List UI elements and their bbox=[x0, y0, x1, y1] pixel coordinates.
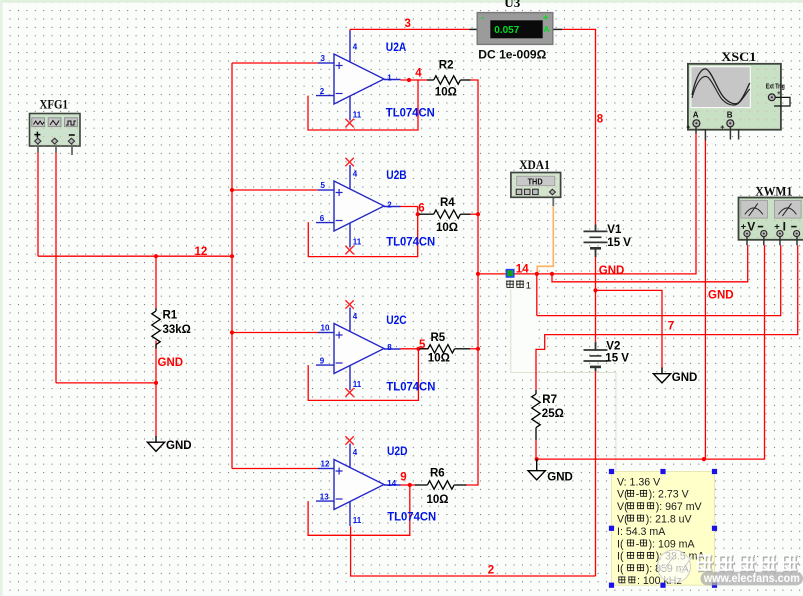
svg-text:+: + bbox=[686, 125, 690, 132]
wire R4 right lead red bbox=[471, 213, 479, 215]
svg-text:+: + bbox=[543, 13, 549, 24]
svg-text:25Ω: 25Ω bbox=[542, 408, 564, 420]
U2A pin labels bbox=[320, 43, 393, 120]
svg-text:): 2.73 V: ): 2.73 V bbox=[649, 489, 690, 501]
wire U2A feedback bbox=[308, 80, 418, 130]
U2B pin11 no-connect X bbox=[345, 246, 353, 254]
wire net 7 to XWM1 +I terminal bbox=[537, 245, 781, 315]
svg-text:6: 6 bbox=[418, 203, 424, 215]
svg-text:12: 12 bbox=[195, 246, 208, 258]
svg-text:TL074CN: TL074CN bbox=[386, 235, 435, 249]
svg-text:10: 10 bbox=[321, 324, 330, 333]
svg-text:14: 14 bbox=[387, 479, 396, 488]
wire U2B feedback bbox=[308, 207, 417, 257]
svg-text:U2D: U2D bbox=[387, 444, 408, 458]
ground symbol below R1 bbox=[155, 436, 157, 442]
resistor R4 bbox=[419, 213, 434, 215]
svg-text:GND: GND bbox=[547, 471, 573, 483]
svg-text:I(: I( bbox=[617, 538, 624, 550]
svg-text:1: 1 bbox=[526, 280, 531, 291]
svg-text:-: - bbox=[636, 489, 640, 501]
svg-text:V(: V( bbox=[617, 489, 628, 501]
svg-text:10Ω: 10Ω bbox=[427, 494, 449, 506]
svg-text:A: A bbox=[693, 111, 699, 120]
XWM1 terminal stubs bbox=[746, 237, 748, 246]
svg-text:): 967 mV: ): 967 mV bbox=[656, 501, 703, 513]
U2C pin labels bbox=[320, 312, 393, 389]
svg-text:R5: R5 bbox=[431, 332, 446, 344]
svg-text:XWM1: XWM1 bbox=[755, 184, 792, 198]
svg-text:TL074CN: TL074CN bbox=[387, 510, 436, 524]
svg-text:33kΩ: 33kΩ bbox=[163, 324, 191, 336]
op-amp U2B bbox=[316, 165, 401, 248]
op-amp U2D bbox=[316, 444, 401, 527]
wire V2 bottom to net 2 bbox=[595, 371, 597, 576]
svg-text:5: 5 bbox=[321, 181, 326, 190]
wire V1 bottom to V2 top bbox=[595, 257, 597, 342]
wire U2C output to R5 bbox=[401, 348, 429, 350]
wire XWM1 -I lead to R7 top bbox=[536, 245, 798, 390]
wire net 14 branch down to net 7 rail bbox=[536, 274, 538, 316]
svg-text:12: 12 bbox=[321, 460, 330, 469]
svg-text:+: + bbox=[777, 90, 781, 97]
op-amp U2A bbox=[316, 38, 401, 121]
wire R1 top bbox=[155, 256, 157, 308]
svg-text:2: 2 bbox=[387, 200, 392, 209]
svg-text:B: B bbox=[727, 111, 733, 120]
svg-text:TL074CN: TL074CN bbox=[386, 106, 435, 120]
svg-text:4: 4 bbox=[415, 68, 422, 80]
svg-text:XFG1: XFG1 bbox=[40, 97, 69, 111]
wire net 12 vertical bus to op-amp + inputs bbox=[231, 63, 233, 469]
wire output bus vertical (R2 R4 R5 R6) bbox=[467, 80, 479, 485]
wire U2D feedback bbox=[308, 485, 410, 535]
svg-text:R7: R7 bbox=[542, 394, 557, 406]
wire R1 bottom to ground node bbox=[155, 341, 157, 437]
wire to U2D + input bbox=[232, 468, 318, 470]
svg-text:1: 1 bbox=[387, 73, 392, 82]
svg-text:+: + bbox=[720, 125, 724, 132]
XSC1 A- lead stub bbox=[704, 129, 706, 141]
svg-text:GND: GND bbox=[166, 440, 192, 452]
wire R7 bottom bbox=[535, 440, 537, 459]
svg-text:I: I bbox=[783, 220, 786, 234]
XDA1 probe wire (orange) bbox=[537, 206, 553, 274]
wire R5 right lead red bbox=[470, 348, 478, 350]
svg-text:Ext Trig: Ext Trig bbox=[766, 81, 785, 90]
svg-text:10Ω: 10Ω bbox=[435, 86, 457, 98]
svg-text:15 V: 15 V bbox=[605, 352, 629, 364]
XSC1 A+ lead stub bbox=[695, 127, 697, 134]
svg-text:8: 8 bbox=[597, 114, 604, 126]
svg-text:R4: R4 bbox=[440, 197, 455, 209]
distortion analyzer XDA1 bbox=[511, 173, 561, 198]
svg-text:7: 7 bbox=[668, 321, 674, 333]
ground symbol below R7 bbox=[536, 459, 538, 465]
wire net 14 horizontal to XSC1 A+ bbox=[478, 133, 696, 274]
measurement text lines bbox=[617, 476, 706, 587]
svg-text:DC 1e-009Ω: DC 1e-009Ω bbox=[478, 47, 546, 61]
U2D pin4 no-connect X bbox=[345, 436, 353, 444]
svg-text:U2A: U2A bbox=[386, 40, 407, 54]
svg-text:4: 4 bbox=[353, 43, 358, 52]
svg-text:XSC1: XSC1 bbox=[721, 50, 756, 64]
svg-text:V(: V( bbox=[617, 501, 628, 513]
svg-text:13: 13 bbox=[320, 492, 329, 501]
svg-text:6: 6 bbox=[320, 214, 325, 223]
op-amp U2C bbox=[316, 308, 401, 391]
U2B pin4 no-connect X bbox=[345, 158, 353, 166]
svg-text:11: 11 bbox=[353, 238, 362, 247]
battery V2 15V bbox=[595, 342, 597, 350]
svg-text:V2: V2 bbox=[606, 340, 620, 352]
svg-text:V1: V1 bbox=[607, 224, 622, 236]
wire net 12 horizontal bbox=[38, 255, 232, 257]
svg-text:V(: V( bbox=[617, 514, 628, 526]
wire U3 right to V1 bbox=[562, 29, 596, 224]
wire net 3: U2A pin4 to U3 bbox=[350, 28, 470, 30]
U2A pin11 no-connect X bbox=[345, 119, 353, 127]
svg-text:R2: R2 bbox=[439, 60, 454, 72]
svg-text:A: A bbox=[543, 24, 549, 34]
svg-text:5: 5 bbox=[419, 339, 426, 351]
wire supply midpoint to ground bbox=[596, 290, 663, 367]
wire U2B output bbox=[401, 206, 418, 208]
U2B pin labels bbox=[320, 170, 393, 247]
svg-text:4: 4 bbox=[353, 312, 358, 321]
oscilloscope XSC1 bbox=[686, 64, 790, 132]
svg-text:3: 3 bbox=[405, 18, 411, 30]
svg-text:I(: I( bbox=[617, 551, 624, 563]
resistor R7 bbox=[535, 390, 537, 394]
svg-text:8: 8 bbox=[387, 343, 392, 352]
wire branch to XWM1 +V terminal bbox=[552, 245, 748, 282]
svg-text:-: - bbox=[481, 12, 484, 23]
U2C pin4 no-connect X bbox=[345, 300, 353, 308]
svg-text:GND: GND bbox=[672, 372, 698, 384]
svg-text:10Ω: 10Ω bbox=[436, 222, 458, 234]
svg-text:15 V: 15 V bbox=[607, 237, 631, 249]
svg-text:3: 3 bbox=[321, 54, 326, 63]
svg-text:U2B: U2B bbox=[386, 168, 407, 182]
svg-text:2: 2 bbox=[320, 87, 325, 96]
svg-text:GND: GND bbox=[158, 357, 184, 369]
wire common to R1 bottom bbox=[56, 382, 156, 384]
svg-text:V: 1.36 V: V: 1.36 V bbox=[617, 476, 661, 488]
resistor R2 bbox=[427, 79, 434, 81]
probe measurement readout box bbox=[612, 472, 715, 586]
svg-text:4: 4 bbox=[353, 448, 358, 457]
wire U2A output to R2 bbox=[401, 79, 428, 81]
svg-text:11: 11 bbox=[353, 516, 362, 525]
U2C pin11 no-connect X bbox=[345, 388, 353, 396]
svg-text:10Ω: 10Ω bbox=[428, 352, 450, 364]
battery V1 15V bbox=[595, 225, 597, 232]
wire U2D output to R6 bbox=[401, 484, 416, 486]
resistor R1 bbox=[155, 308, 157, 311]
probe label bbox=[505, 279, 535, 292]
wire to U2B + input bbox=[232, 189, 318, 191]
svg-text:THD: THD bbox=[528, 178, 543, 187]
svg-text:4: 4 bbox=[353, 170, 358, 179]
svg-text:U3: U3 bbox=[504, 0, 520, 10]
wire U2C feedback bbox=[308, 349, 418, 401]
svg-text:GND: GND bbox=[708, 290, 734, 302]
function generator XFG1 bbox=[30, 114, 81, 147]
XFG1 leads bbox=[37, 145, 39, 153]
svg-text:-: - bbox=[636, 538, 640, 550]
svg-text:11: 11 bbox=[353, 111, 362, 120]
ground symbol between V1 and V2 bbox=[661, 368, 663, 374]
U2D pin labels bbox=[320, 448, 397, 525]
resistor R5 bbox=[420, 348, 428, 350]
svg-text:): 109 mA: ): 109 mA bbox=[649, 538, 696, 550]
wire to U2C + input bbox=[232, 332, 318, 334]
wire net 2 negative rail to U2D pin11 bbox=[351, 526, 596, 576]
svg-text:14: 14 bbox=[516, 263, 529, 275]
svg-text:GND: GND bbox=[599, 265, 625, 277]
XSC1 B lead stubs bbox=[729, 127, 731, 140]
svg-text:I: 54.3 mA: I: 54.3 mA bbox=[617, 526, 666, 538]
selection handles bbox=[609, 469, 717, 588]
wire to U2A + input bbox=[232, 62, 318, 64]
wire XFG1 common terminal down bbox=[55, 152, 57, 383]
wire XSC1 A- lead down bbox=[704, 140, 706, 459]
watermark elecfans bbox=[658, 550, 803, 586]
U2A pin4 stub extension bbox=[349, 31, 351, 39]
svg-text:www.elecfans.com: www.elecfans.com bbox=[703, 571, 800, 585]
wire ground rail R7 / XSC1 A- / XWM1 V- bbox=[537, 245, 765, 459]
svg-text:9: 9 bbox=[320, 356, 325, 365]
svg-text:U2C: U2C bbox=[386, 313, 407, 327]
svg-text:R6: R6 bbox=[430, 467, 445, 479]
wire net 12 from XFG1 + terminal down bbox=[37, 152, 39, 256]
svg-text:): 21.8 uV: ): 21.8 uV bbox=[646, 514, 693, 526]
svg-text:R1: R1 bbox=[163, 310, 178, 322]
svg-text:XDA1: XDA1 bbox=[519, 158, 550, 172]
svg-text:TL074CN: TL074CN bbox=[386, 380, 435, 394]
resistor R6 bbox=[415, 484, 427, 486]
svg-text:11: 11 bbox=[353, 380, 362, 389]
svg-text:I(: I( bbox=[617, 563, 624, 575]
svg-text:0.057: 0.057 bbox=[494, 25, 519, 36]
faint readout region outline bbox=[511, 278, 537, 373]
ammeter U3 bbox=[470, 12, 563, 44]
wattmeter XWM1 bbox=[739, 198, 803, 240]
svg-text:2: 2 bbox=[488, 565, 494, 577]
probe tanzhen1 bbox=[506, 270, 513, 277]
svg-text:9: 9 bbox=[400, 472, 406, 484]
window edge tint bbox=[0, 0, 803, 3]
